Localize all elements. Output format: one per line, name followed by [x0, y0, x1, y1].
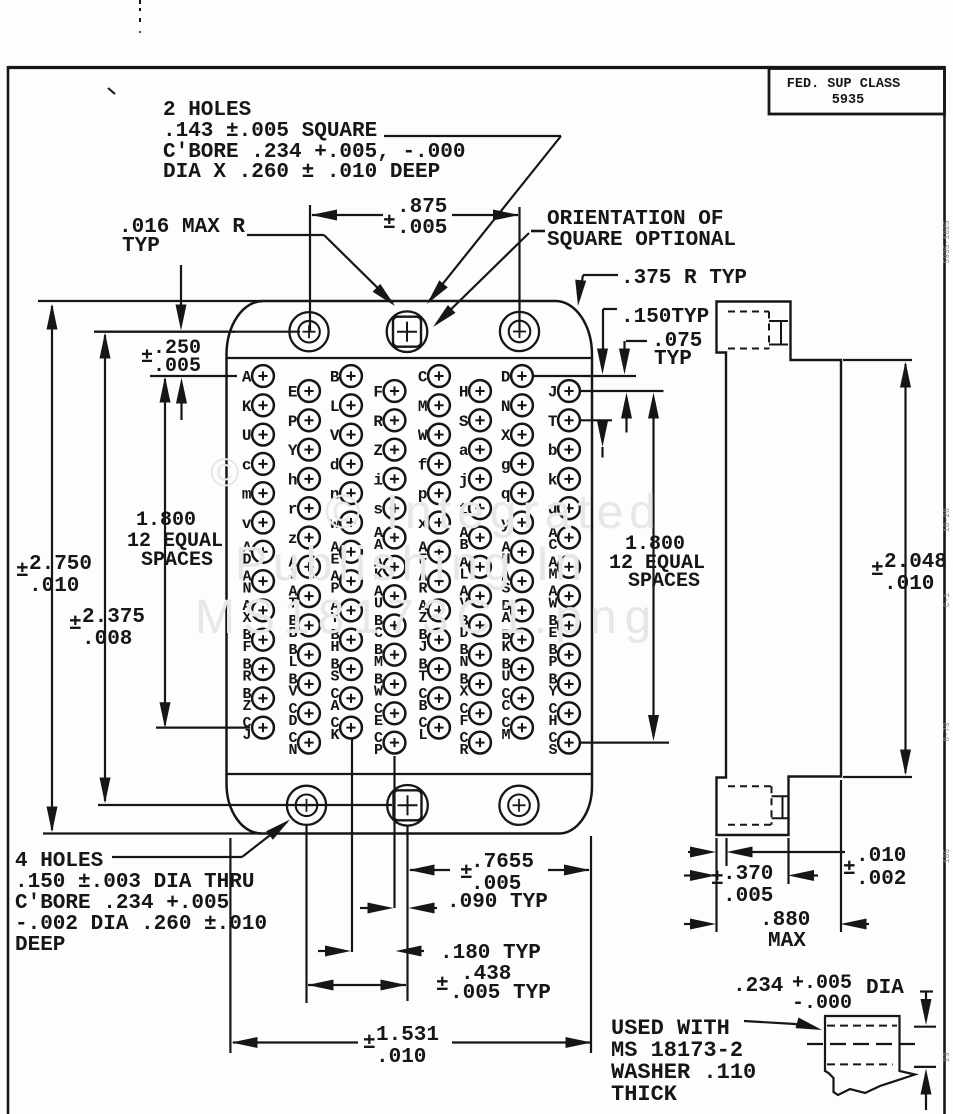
svg-text:P: P [374, 742, 383, 759]
row J extension line [580, 390, 664, 392]
svg-text:.150TYP: .150TYP [621, 306, 709, 329]
svg-text:X: X [459, 684, 468, 701]
pin CN [298, 732, 320, 754]
svg-text:X: X [501, 427, 511, 445]
pin E [298, 380, 320, 402]
FED SUP CLASS title box [769, 69, 945, 115]
svg-text:.002: .002 [856, 868, 906, 891]
svg-text:A: A [242, 369, 252, 387]
pin B [340, 365, 362, 387]
pin p [428, 482, 450, 504]
pin AZ [428, 600, 450, 622]
mounting hole bottom-right [499, 786, 538, 825]
pin BK [511, 629, 533, 651]
pin j [469, 468, 491, 490]
svg-text:.150 ±.003 DIA THRU: .150 ±.003 DIA THRU [15, 871, 254, 894]
svg-text:±: ± [16, 560, 29, 583]
pin BH [340, 629, 362, 651]
svg-text:b: b [548, 442, 558, 460]
pin AT [298, 585, 320, 607]
mounting hole top-left [289, 312, 328, 351]
dimension .250 ±.005 [180, 265, 182, 312]
svg-text:d: d [330, 456, 340, 474]
svg-text:.7655: .7655 [471, 851, 534, 874]
pin q [511, 482, 533, 504]
svg-text:R: R [373, 413, 383, 431]
svg-text:g: g [501, 456, 511, 474]
pin k [558, 468, 580, 490]
leader from 4 holes note to bottom-left hole [112, 856, 242, 858]
pin X [511, 424, 533, 446]
pin BW [384, 673, 406, 695]
pin CC [511, 687, 533, 709]
pin g [511, 453, 533, 475]
svg-text:N: N [288, 742, 297, 759]
pin w [340, 512, 362, 534]
dimension .370 ±.005 [684, 874, 697, 876]
svg-text:Publishing In: Publishing In [235, 538, 588, 591]
pin m [252, 482, 274, 504]
svg-text:.010: .010 [856, 845, 906, 868]
dimension .7655 ±.005 [410, 869, 450, 871]
top hole center ext line left [94, 331, 235, 333]
pin BC [384, 615, 406, 637]
insert top shoulder line [227, 357, 593, 359]
svg-text:105: 105 [943, 849, 952, 864]
svg-text:L: L [418, 727, 427, 744]
row D extension line [533, 375, 636, 377]
svg-text:±: ± [436, 974, 449, 997]
pin AK [384, 556, 406, 578]
svg-text:.005: .005 [723, 885, 773, 908]
svg-text:±: ± [383, 212, 396, 235]
svg-text:Z: Z [373, 442, 383, 460]
svg-text:Y: Y [288, 442, 298, 460]
svg-text:N: N [501, 398, 511, 416]
pin AS [511, 570, 533, 592]
bottom hole center line (2.375 ext) [98, 804, 392, 806]
svg-text:Z: Z [242, 698, 251, 715]
pin A [252, 365, 274, 387]
washer thickness dimension [920, 990, 933, 992]
svg-text:C: C [501, 698, 510, 715]
svg-text:A: A [330, 698, 339, 715]
hidden square hole bottom block [728, 785, 772, 787]
pin T [558, 409, 580, 431]
side view ext lines below [715, 838, 717, 932]
pin BF [252, 629, 274, 651]
svg-text:P: P [548, 654, 557, 671]
svg-text:V: V [288, 684, 297, 701]
dimension 2.048 ±.010 [843, 359, 912, 361]
row CS extension line [580, 741, 669, 743]
svg-text:r: r [288, 501, 298, 519]
pin v [252, 512, 274, 534]
pin AU [384, 585, 406, 607]
svg-text:1.531: 1.531 [376, 1024, 439, 1047]
svg-text:C'BORE .234 +.005: C'BORE .234 +.005 [15, 892, 229, 915]
center square hole top [387, 311, 428, 352]
svg-text:5935: 5935 [832, 93, 864, 108]
pin CB [428, 687, 450, 709]
svg-text:c: c [242, 456, 252, 474]
svg-text:±: ± [141, 346, 153, 369]
pin AD [252, 541, 274, 563]
pin M [428, 394, 450, 416]
svg-text:.143 ±.005 SQUARE: .143 ±.005 SQUARE [163, 120, 377, 143]
pin CE [384, 702, 406, 724]
svg-text:S: S [459, 413, 469, 431]
svg-text:.010: .010 [29, 575, 79, 598]
pin C [428, 365, 450, 387]
top hole center line [94, 331, 300, 333]
svg-text:.005 TYP: .005 TYP [450, 982, 551, 1005]
pin BP [558, 644, 580, 666]
pin BJ [428, 629, 450, 651]
pin CK [340, 717, 362, 739]
svg-text:.005: .005 [153, 355, 201, 378]
svg-text:Y: Y [548, 684, 557, 701]
leader from SQUARE note to center square hole [384, 135, 561, 137]
hidden square hole top block [728, 311, 769, 313]
svg-text:2.375: 2.375 [82, 606, 145, 629]
registration marks top-left [139, 0, 141, 4]
svg-text:B: B [330, 369, 340, 387]
svg-text:DIA X .260 ± .010 DEEP: DIA X .260 ± .010 DEEP [163, 161, 440, 184]
pin L [340, 394, 362, 416]
svg-text:4 HOLES: 4 HOLES [15, 850, 103, 873]
svg-text:10-28: 10-28 [943, 508, 952, 532]
pin K [252, 394, 274, 416]
svg-text:T: T [548, 413, 558, 431]
dimension .880 MAX [684, 923, 697, 925]
svg-text:MS18173C1.png: MS18173C1.png [195, 591, 659, 644]
pin BN [469, 644, 491, 666]
svg-text:©: © [210, 451, 239, 495]
pin Y [298, 439, 320, 461]
svg-text:±: ± [871, 559, 884, 582]
svg-text:v: v [242, 515, 252, 533]
dimension 1.531 ±.010 overall width [233, 1041, 358, 1043]
svg-text:M: M [374, 654, 383, 671]
svg-text:.234: .234 [733, 975, 783, 998]
svg-text:.010: .010 [884, 573, 934, 596]
pin AA [384, 527, 406, 549]
pin AB [469, 527, 491, 549]
pin D [511, 365, 533, 387]
svg-text:E: E [374, 713, 383, 730]
svg-text:23: 23 [943, 1052, 952, 1062]
connector body outline (front view) [227, 301, 593, 834]
svg-text:F: F [373, 384, 383, 402]
pin BV [298, 673, 320, 695]
pin BT [428, 658, 450, 680]
pin CL [428, 717, 450, 739]
pin CM [511, 717, 533, 739]
svg-text:DEEP: DEEP [15, 934, 65, 957]
pin AX [252, 600, 274, 622]
pin h [298, 468, 320, 490]
pin BE [558, 615, 580, 637]
pin f [428, 453, 450, 475]
svg-text:f: f [418, 456, 428, 474]
bottom edge ext line left [43, 832, 262, 834]
pin V [340, 424, 362, 446]
pin z [298, 527, 320, 549]
pin y [511, 512, 533, 534]
svg-text:R: R [242, 669, 251, 686]
pin AH [511, 541, 533, 563]
leader from .016 note to square hole corner [247, 234, 324, 236]
svg-text:© Integrated: © Integrated [325, 486, 662, 539]
svg-text:.090 TYP: .090 TYP [447, 891, 548, 914]
side view profile outline [717, 302, 842, 836]
svg-text:.180 TYP: .180 TYP [440, 942, 541, 965]
pin J [558, 380, 580, 402]
svg-text:h: h [288, 471, 298, 489]
pin AF [428, 541, 450, 563]
pin P [298, 409, 320, 431]
pin W [428, 424, 450, 446]
svg-text:C: C [418, 369, 428, 387]
svg-text:U: U [242, 427, 252, 445]
pin AP [340, 570, 362, 592]
svg-text:SPACES: SPACES [628, 570, 700, 593]
pin BA [511, 600, 533, 622]
pin AY [340, 600, 362, 622]
svg-text:TYP: TYP [654, 348, 692, 371]
svg-text:a: a [459, 442, 469, 460]
arrows at J row [625, 412, 627, 433]
svg-text:C-1: C-1 [943, 593, 952, 608]
svg-text:SPACES: SPACES [141, 549, 213, 572]
svg-text:R: R [459, 742, 468, 759]
leader from orientation note to square hole [436, 233, 529, 324]
svg-text:D: D [288, 713, 297, 730]
pin BD [469, 615, 491, 637]
pin d [340, 453, 362, 475]
pin c [252, 453, 274, 475]
svg-text:.875: .875 [397, 196, 447, 219]
row A extension line [150, 375, 237, 377]
pin BU [511, 658, 533, 680]
svg-text:J: J [548, 384, 558, 402]
dimension 1.800 right side [652, 412, 654, 722]
washer cross-section [825, 1016, 915, 1095]
pin AJ [298, 556, 320, 578]
svg-text:8-73: 8-73 [943, 722, 952, 741]
pin BX [469, 673, 491, 695]
pin AR [428, 570, 450, 592]
svg-text:H: H [548, 713, 557, 730]
pin Z [384, 439, 406, 461]
svg-text:2.048: 2.048 [884, 551, 947, 574]
dimension .438 ±.005 TYP [308, 984, 406, 986]
pin u [558, 497, 580, 519]
pin r [298, 497, 320, 519]
pin BR [252, 658, 274, 680]
ext lines below connector [305, 825, 307, 1003]
stub arrow at T row [601, 422, 603, 432]
pin BS [340, 658, 362, 680]
pin AN [252, 570, 274, 592]
pin H [469, 380, 491, 402]
svg-text:J: J [242, 727, 251, 744]
svg-text:K: K [242, 398, 252, 416]
row T extension line [580, 419, 612, 421]
pin CP [384, 732, 406, 754]
svg-text:-.002 DIA .260 ±.010: -.002 DIA .260 ±.010 [15, 913, 267, 936]
pin R [384, 409, 406, 431]
pin AV [469, 585, 491, 607]
pin F [384, 380, 406, 402]
leader from used-with note to washer [744, 1021, 795, 1024]
pin BY [558, 673, 580, 695]
svg-text:SQUARE OPTIONAL: SQUARE OPTIONAL [547, 229, 736, 252]
pin BB [298, 615, 320, 637]
pin CA [340, 687, 362, 709]
pin S [469, 409, 491, 431]
svg-text:THICK: THICK [611, 1082, 678, 1107]
dimension .010 ±.002 [688, 851, 697, 853]
svg-text:-.000: -.000 [792, 992, 852, 1015]
svg-text:.880: .880 [760, 909, 810, 932]
pin CD [298, 702, 320, 724]
pin N [511, 394, 533, 416]
pin a [469, 439, 491, 461]
svg-text:M: M [501, 727, 510, 744]
svg-text:P: P [288, 413, 298, 431]
pin AE [340, 541, 362, 563]
dimension 1.800 12 equal spaces left [164, 379, 166, 725]
svg-text:DIA: DIA [866, 977, 904, 1000]
svg-text:B: B [418, 698, 427, 715]
svg-text:D: D [501, 369, 511, 387]
insert bottom shoulder line [227, 773, 593, 775]
dimension .875 ±.005 between top holes [309, 205, 311, 331]
mounting hole top-right [500, 312, 539, 351]
pin i [384, 468, 406, 490]
pin CF [469, 702, 491, 724]
pin BL [298, 644, 320, 666]
pin s [384, 497, 406, 519]
svg-text:.008: .008 [82, 628, 132, 651]
svg-text:N: N [459, 654, 468, 671]
pin BZ [252, 687, 274, 709]
svg-text:.370: .370 [723, 863, 773, 886]
pin BM [384, 644, 406, 666]
pin t [469, 497, 491, 519]
svg-text:T: T [418, 669, 427, 686]
svg-text:1.800: 1.800 [136, 509, 196, 532]
svg-text:S: S [330, 669, 339, 686]
svg-text:K: K [330, 727, 339, 744]
mounting hole bottom-left [287, 786, 326, 825]
svg-text:2 HOLES: 2 HOLES [163, 99, 251, 122]
svg-text:.375 R TYP: .375 R TYP [621, 267, 747, 290]
svg-text:m: m [242, 486, 252, 504]
svg-text:V: V [330, 427, 340, 445]
center square hole bottom [387, 785, 428, 826]
pin b [558, 439, 580, 461]
pin AC [558, 527, 580, 549]
svg-text:FED. SUP CLASS: FED. SUP CLASS [787, 77, 900, 92]
svg-text:ORIENTATION OF: ORIENTATION OF [547, 208, 723, 231]
row CJ extension line [156, 726, 250, 728]
svg-text:L: L [288, 654, 297, 671]
svg-text:W: W [374, 684, 383, 701]
svg-text:M: M [418, 398, 428, 416]
pin U [252, 424, 274, 446]
svg-text:L: L [330, 398, 340, 416]
pin AM [558, 556, 580, 578]
svg-text:2.750: 2.750 [29, 553, 92, 576]
svg-text:TYP: TYP [122, 235, 160, 258]
svg-text:.010: .010 [376, 1046, 426, 1069]
pin x [428, 512, 450, 534]
top edge extension line [38, 300, 264, 302]
svg-text:U: U [501, 669, 510, 686]
svg-text:5935-1025: 5935-1025 [943, 220, 952, 263]
dimension 2.375 ±.008 hole spacing [104, 335, 106, 801]
pin CS [558, 732, 580, 754]
dimension .180 TYP [318, 950, 332, 952]
dimension 2.750 ±.010 overall height [51, 306, 53, 830]
pin n [340, 482, 362, 504]
pin AW [558, 585, 580, 607]
svg-text:W: W [418, 427, 428, 445]
svg-text:F: F [459, 713, 468, 730]
svg-text:S: S [548, 742, 557, 759]
svg-text:MAX: MAX [768, 930, 806, 953]
svg-text:±: ± [69, 613, 82, 636]
pin AL [469, 556, 491, 578]
svg-text:±: ± [363, 1032, 376, 1055]
dimension .090 TYP [360, 907, 374, 909]
border frame [7, 66, 10, 1114]
pin CJ [252, 717, 274, 739]
svg-text:H: H [459, 384, 469, 402]
svg-text:.005: .005 [397, 217, 447, 240]
svg-text:E: E [288, 384, 298, 402]
pin CR [469, 732, 491, 754]
svg-text:±: ± [843, 858, 856, 881]
pin CH [558, 702, 580, 724]
